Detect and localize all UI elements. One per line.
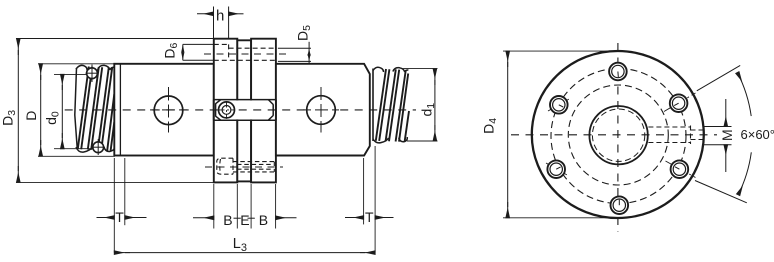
60 degree radial line upper: [697, 65, 740, 90]
angular dimension arc 6x60: [737, 73, 751, 117]
svg-text:6×60°: 6×60°: [741, 127, 774, 142]
dimension D4: [503, 50, 620, 52]
dimension D6: [183, 43, 214, 45]
ball bottom-left: [93, 142, 104, 153]
svg-text:D3: D3: [0, 110, 18, 126]
svg-text:B: B: [259, 212, 268, 228]
screw root circle (dashed): [592, 109, 644, 161]
wiper ring line left: [119, 64, 121, 156]
dimension M: [704, 126, 732, 128]
bolt hole upper-left: [548, 96, 570, 114]
svg-text:d0: d0: [43, 111, 62, 125]
spigot circle D5 (dashed): [568, 85, 668, 185]
ball top-left: [87, 68, 98, 79]
lube hole circle right nut: [307, 96, 336, 125]
flange left plate: [214, 39, 238, 183]
dimension D5: [278, 47, 311, 49]
svg-text:L3: L3: [233, 236, 247, 254]
nut body left section: [114, 64, 214, 156]
svg-text:E: E: [240, 212, 249, 228]
svg-text:T: T: [115, 209, 124, 225]
svg-text:h: h: [216, 8, 224, 25]
hidden bolt hole top (counterbore D6): [214, 44, 276, 60]
bolt circle (dashed): [551, 69, 686, 204]
flange right plate: [251, 39, 276, 183]
spacer shim E: [237, 40, 251, 181]
centerline horizontal: [511, 134, 717, 136]
dimension T left: [113, 158, 115, 253]
hidden clamp bolt bottom: [205, 166, 283, 168]
dimension T right: [363, 158, 365, 224]
bolt hole lower-left: [546, 160, 568, 178]
dimension d1: [401, 68, 438, 70]
centerline left view: [65, 109, 416, 111]
dimension h: [213, 7, 215, 39]
svg-text:D4: D4: [480, 118, 499, 134]
svg-text:B: B: [223, 212, 232, 228]
dimension B E B: [213, 184, 215, 229]
hole centerline top: [204, 53, 286, 55]
ball screw thread right: [373, 69, 409, 142]
ball screw thread left: [75, 67, 115, 151]
flange face lines through band: [213, 100, 215, 121]
bolt hole bottom: [611, 196, 629, 214]
dimension L3: [114, 252, 130, 254]
flange outer circle: [532, 51, 704, 218]
grease hole M side view: [219, 102, 235, 118]
bolt hole top: [609, 63, 627, 81]
wrench flat band across flange: [215, 100, 275, 119]
svg-text:T: T: [365, 209, 374, 225]
svg-text:D5: D5: [295, 25, 314, 41]
M tapped hole hidden lines: [648, 126, 703, 145]
svg-text:M: M: [719, 129, 735, 141]
dimension D: [38, 63, 114, 65]
bolt hole lower-right: [666, 160, 696, 178]
60 degree radial line lower: [695, 181, 747, 203]
svg-text:d1: d1: [419, 103, 438, 117]
dimension D3: [16, 38, 214, 40]
svg-text:D: D: [23, 111, 39, 121]
bolt hole upper-right: [664, 93, 696, 112]
nut body right section: [276, 64, 370, 156]
dimension d0: [54, 73, 87, 75]
bore circle d1: [589, 106, 647, 164]
centerline vertical: [617, 43, 619, 232]
svg-text:D6: D6: [162, 42, 181, 58]
lube hole circle left nut: [154, 96, 183, 125]
